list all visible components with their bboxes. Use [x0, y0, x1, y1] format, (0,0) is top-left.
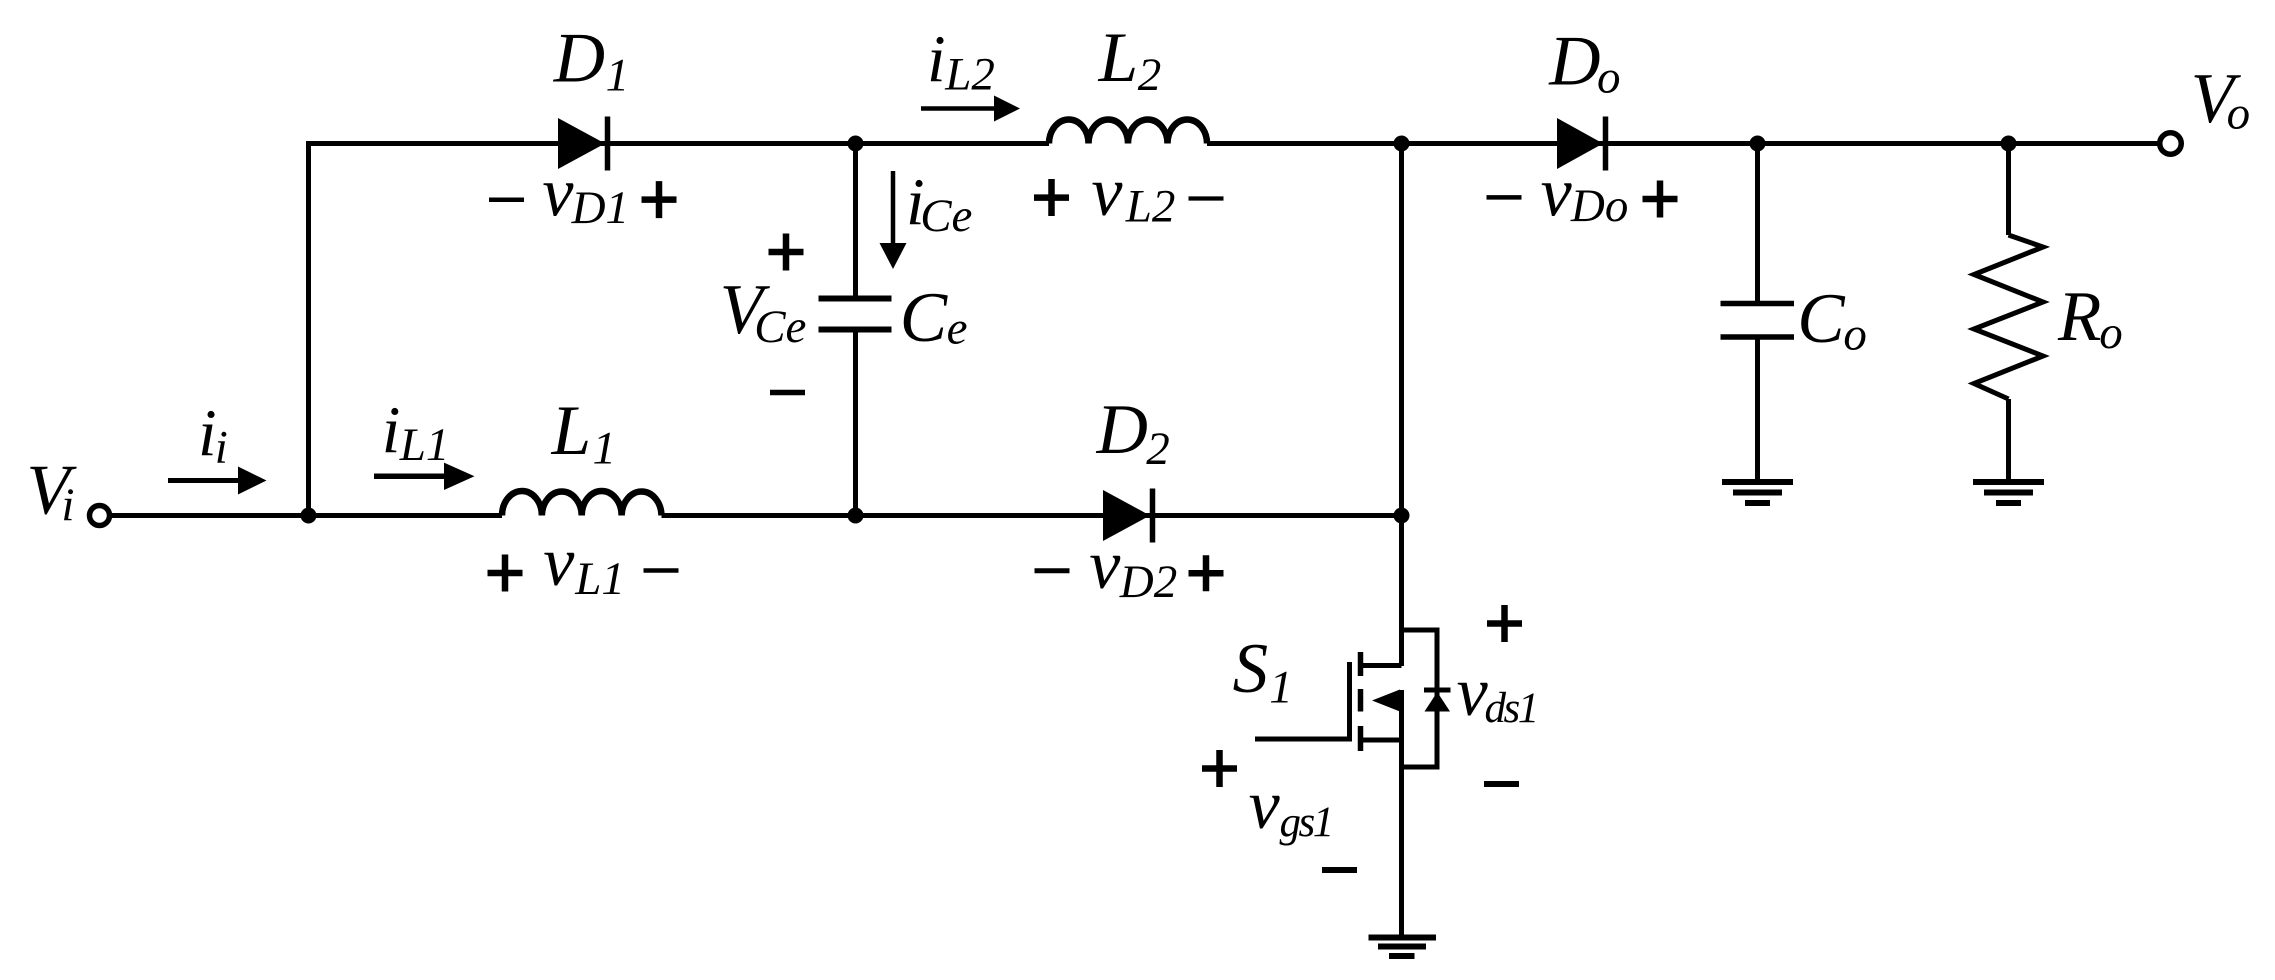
label Ce — [900, 279, 968, 357]
label Co — [1797, 280, 1867, 361]
node dot Ro junction — [2001, 136, 2017, 152]
svg-text:ds1: ds1 — [1485, 685, 1537, 732]
svg-text:D: D — [1096, 391, 1148, 469]
terminal Vo — [2160, 133, 2182, 155]
svg-text:C: C — [900, 279, 949, 357]
diode D2 — [1103, 489, 1153, 543]
capacitor Ce plates — [819, 299, 892, 330]
ground under Ro — [1973, 482, 2044, 503]
svg-text:i: i — [927, 22, 946, 96]
transistor S1 MOSFET — [1255, 652, 1402, 751]
wire body-diode loop — [1402, 630, 1438, 767]
label iL1 — [382, 393, 450, 471]
wire source vertical — [1399, 690, 1404, 938]
svg-text:i: i — [61, 479, 74, 531]
label vD1 — [489, 155, 677, 235]
label iL2 — [927, 22, 995, 101]
svg-text:o: o — [1597, 52, 1621, 104]
node dot Vi junction — [301, 508, 317, 524]
label VCe minus — [770, 390, 805, 396]
wire Ce branch lower — [853, 332, 858, 516]
svg-text:L2: L2 — [944, 49, 995, 101]
svg-text:o: o — [1843, 309, 1867, 361]
svg-text:v: v — [542, 155, 574, 232]
wire left vertical branch — [306, 141, 311, 516]
inductor L1 — [502, 491, 662, 516]
label vDo — [1487, 155, 1678, 233]
label D2 — [1096, 391, 1170, 475]
label D1 — [553, 20, 629, 102]
wire Ro branch upper — [2006, 144, 2011, 236]
inductor L2 — [1049, 120, 1207, 144]
label vL2 — [1034, 154, 1224, 233]
svg-text:2: 2 — [1138, 49, 1162, 101]
svg-text:D: D — [553, 20, 605, 98]
svg-text:v: v — [1541, 155, 1573, 232]
label Vi — [27, 452, 78, 532]
label VCe plus — [769, 234, 804, 271]
label iCe — [906, 165, 972, 242]
ground under S1 — [1369, 938, 1437, 957]
node dot Ce top — [848, 136, 864, 152]
svg-text:L2: L2 — [1125, 181, 1176, 233]
svg-text:v: v — [1249, 767, 1281, 844]
svg-text:e: e — [947, 303, 968, 355]
svg-text:v: v — [1089, 527, 1121, 604]
svg-text:1: 1 — [593, 423, 617, 475]
label vgs1 — [1249, 767, 1332, 846]
svg-text:1: 1 — [606, 50, 630, 102]
label vD2 — [1035, 527, 1224, 608]
svg-text:C: C — [1797, 280, 1846, 358]
label Vo — [2191, 60, 2250, 140]
svg-text:i: i — [382, 393, 401, 467]
label VCe — [720, 271, 807, 353]
resistor Ro zigzag — [1974, 235, 2043, 399]
svg-text:D2: D2 — [1119, 556, 1177, 608]
svg-text:2: 2 — [1146, 423, 1170, 475]
label vgs1 plus — [1202, 750, 1237, 787]
capacitor Co plates — [1721, 304, 1795, 338]
svg-text:Do: Do — [1570, 180, 1628, 232]
arrow iCe — [880, 171, 907, 269]
label vds1 — [1457, 654, 1537, 732]
svg-text:R: R — [2057, 278, 2101, 356]
svg-text:D: D — [1548, 23, 1600, 101]
label vds1 minus — [1484, 781, 1519, 787]
wire Ce branch upper — [853, 144, 858, 296]
label L2 — [1098, 19, 1162, 101]
wire bottom rail left segment — [111, 513, 502, 518]
svg-text:o: o — [2099, 307, 2123, 359]
label vds1 plus — [1487, 605, 1522, 642]
arrow iL1 — [374, 463, 475, 490]
svg-text:L: L — [551, 392, 592, 470]
wire bottom rail right segment — [662, 513, 1402, 518]
label ii — [198, 396, 228, 474]
terminal Vi — [90, 506, 110, 526]
label Do — [1548, 23, 1620, 104]
svg-text:i: i — [215, 422, 228, 474]
arrow iL2 — [921, 96, 1020, 122]
node dot Ce bottom — [848, 508, 864, 524]
ground under Co — [1722, 482, 1793, 503]
wire top rail right segment — [1207, 141, 2158, 146]
body diode of S1 — [1424, 690, 1451, 712]
svg-text:v: v — [1091, 154, 1123, 231]
svg-text:gs1: gs1 — [1280, 799, 1332, 846]
label S1 — [1233, 630, 1293, 714]
wire Co branch upper — [1755, 144, 1760, 302]
svg-text:o: o — [2227, 88, 2251, 140]
diode D1 — [558, 117, 608, 171]
label vL1 — [488, 524, 679, 605]
node dot Co junction — [1750, 136, 1766, 152]
label Ro — [2057, 278, 2123, 359]
label vgs1 minus — [1322, 867, 1357, 873]
svg-text:1: 1 — [1269, 662, 1293, 714]
arrow ii — [168, 467, 267, 495]
svg-text:L: L — [1098, 19, 1139, 97]
svg-text:v: v — [543, 524, 575, 601]
svg-text:Ce: Ce — [920, 190, 972, 242]
label L1 — [551, 392, 616, 475]
diode Do — [1557, 117, 1606, 171]
svg-text:L1: L1 — [399, 419, 450, 471]
svg-text:D1: D1 — [571, 182, 629, 234]
node dot L2-Do junction — [1394, 136, 1410, 152]
node dot D2-drain junction — [1394, 508, 1410, 524]
svg-text:Ce: Ce — [754, 301, 806, 353]
wire drain vertical — [1399, 144, 1404, 667]
svg-text:S: S — [1233, 630, 1269, 708]
wire top rail left segment — [306, 141, 1049, 146]
wire Ro branch lower — [2006, 399, 2011, 482]
svg-text:L1: L1 — [574, 553, 625, 605]
wire Co branch lower — [1755, 340, 1760, 483]
